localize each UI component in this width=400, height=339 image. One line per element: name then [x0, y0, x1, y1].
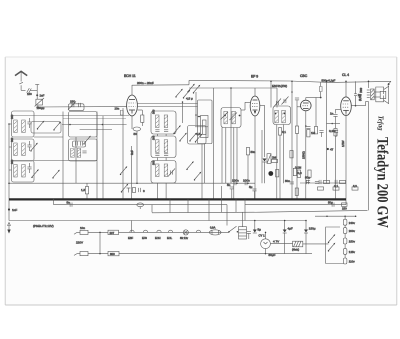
tube V2 — [250, 96, 260, 116]
capacitor C17 — [252, 189, 256, 191]
wire line y118.6 — [63, 118, 126, 120]
switch S2b — [179, 133, 187, 142]
svg-text:Tefag: Tefag — [377, 116, 386, 131]
wire V2 top cap — [254, 88, 256, 96]
wire B+ step — [188, 80, 190, 84]
coil L12 — [156, 164, 160, 177]
resistor R7 — [276, 170, 279, 177]
wire T2 bottom leads — [276, 125, 278, 200]
svg-text:50n: 50n — [285, 179, 290, 183]
resistor R15 — [352, 187, 358, 190]
coil L7a — [71, 148, 75, 157]
resistor R2 under V1 — [131, 116, 133, 129]
wire mid verticals — [221, 128, 223, 184]
capacitor C34 — [82, 151, 86, 153]
resistor R18 207 — [108, 230, 119, 234]
ground symbol — [7, 223, 10, 234]
svg-text:4 7V: 4 7V — [273, 240, 279, 244]
grid capacitor C28 — [333, 115, 337, 117]
coil L10 — [156, 140, 160, 153]
coil L16 — [275, 110, 279, 123]
svg-text:300: 300 — [152, 135, 156, 140]
svg-text:CBC: CBC — [300, 74, 308, 78]
IF bandfilter box F3 — [151, 161, 176, 184]
heater V3 — [157, 230, 161, 232]
switch S1c — [31, 169, 39, 178]
svg-text:1500Ω: 1500Ω — [302, 151, 306, 159]
svg-text:7000: 7000 — [361, 87, 363, 93]
diode D1 — [263, 159, 267, 163]
box B4 — [69, 139, 98, 161]
coupling blob C15 — [268, 171, 273, 176]
svg-text:10n: 10n — [115, 107, 120, 111]
speaker LS — [376, 85, 389, 103]
wire V2 right lead — [260, 104, 265, 106]
wire x182.5 — [182, 102, 184, 123]
wire left rail to ground cap — [8, 199, 10, 220]
svg-text:EF9: EF9 — [142, 236, 147, 240]
resistor R19 — [80, 252, 88, 256]
vertical wires middle-left — [62, 112, 64, 200]
wire V2 left lead — [245, 101, 250, 103]
svg-text:5n: 5n — [67, 201, 71, 205]
switch S1g — [30, 143, 38, 152]
capacitor C25 — [334, 131, 338, 133]
wire osc box drop — [204, 144, 206, 184]
svg-text:100n: 100n — [232, 178, 239, 182]
svg-text:5n: 5n — [227, 183, 231, 187]
switch S1d — [52, 170, 60, 179]
selector bracket — [326, 227, 344, 264]
capacitor C20 — [315, 182, 319, 184]
svg-text:0,1: 0,1 — [334, 184, 339, 188]
IF transformer T1 — [221, 108, 241, 128]
trimmer C12 — [274, 99, 281, 107]
svg-text:300: 300 — [152, 160, 156, 165]
svg-text:1/2W: 1/2W — [341, 140, 345, 147]
band filter box A1 — [12, 111, 35, 137]
svg-text:50n: 50n — [251, 150, 256, 154]
wire to selector — [328, 243, 329, 245]
svg-text:4,5 μ: 4,5 μ — [186, 97, 193, 101]
capacitor C23 + resistor 1M — [306, 127, 310, 129]
wire V4 grid lead — [336, 108, 341, 110]
wire y137 — [34, 136, 63, 138]
chassis bus heavy line — [9, 198, 346, 200]
coil L3 — [14, 143, 18, 156]
svg-text:100n: 100n — [243, 178, 250, 182]
wire trimmer to grid line — [37, 105, 39, 107]
heater chain line 2 — [74, 254, 77, 256]
resistor R5 2M — [272, 159, 278, 162]
trimmer C10 — [221, 112, 229, 120]
svg-text:(Netz): (Netz) — [292, 248, 299, 252]
svg-text:0,1M: 0,1M — [295, 166, 302, 170]
svg-text:6,3: 6,3 — [353, 184, 357, 188]
svg-text:0,1: 0,1 — [282, 130, 286, 134]
switch S1h — [121, 184, 129, 193]
capacitor C32 — [247, 232, 251, 234]
switch S3c — [187, 84, 195, 93]
wire speaker leads — [374, 91, 380, 93]
wire x196 — [195, 92, 197, 126]
wire y181 AVC line — [9, 182, 255, 184]
svg-text:Sk 12v: Sk 12v — [180, 236, 189, 240]
IF bandfilter box F1 — [151, 111, 176, 134]
diode D5 — [304, 230, 308, 234]
switch S2a — [173, 125, 181, 134]
coil L9 — [164, 115, 168, 128]
svg-text:(PbEb./T2.12V): (PbEb./T2.12V) — [33, 224, 54, 228]
mains switch — [228, 226, 238, 232]
svg-text:150: 150 — [70, 100, 75, 104]
wires between filter boxes — [156, 134, 158, 136]
fuse Si below bus — [137, 203, 144, 209]
svg-text:(0,2W): (0,2W) — [360, 94, 362, 101]
wire B+ top line right segment — [189, 80, 391, 82]
svg-text:1M: 1M — [311, 131, 316, 135]
coil L1 — [14, 120, 18, 133]
svg-text:500n-0,1μF: 500n-0,1μF — [322, 78, 336, 82]
wire y129.5 — [80, 129, 112, 131]
svg-text:ECL: ECL — [167, 236, 173, 240]
heater V5 — [196, 230, 200, 232]
svg-text:125v: 125v — [349, 250, 356, 254]
svg-text:1n: 1n — [330, 112, 334, 116]
band filter box A3 — [12, 161, 35, 183]
node left rail row1 — [8, 123, 10, 125]
svg-text:ECH 11: ECH 11 — [124, 74, 136, 78]
wire lineA right segment — [245, 204, 346, 206]
trimmer capacitor 150pF — [35, 98, 44, 106]
svg-text:EBF: EBF — [128, 236, 133, 240]
capacitors C21 C22 100n 100n on AVC line — [234, 181, 236, 185]
wire y216.2 — [315, 215, 356, 217]
svg-text:5μ: 5μ — [249, 185, 253, 189]
wire CY1 to line2 — [265, 249, 267, 254]
electrolytic C26 — [307, 180, 309, 184]
capacitor C19 — [306, 181, 310, 183]
wire rail stubs — [9, 123, 12, 125]
dial lamp — [183, 230, 188, 235]
resistor R12 — [295, 188, 298, 195]
wire V2 bottom leads — [254, 116, 256, 199]
svg-text:5μ: 5μ — [258, 228, 262, 232]
IF transformer T2 — [273, 106, 291, 125]
capacitor C8 — [164, 154, 168, 156]
resistor R17 100n — [80, 230, 88, 234]
coil L13 — [164, 164, 168, 177]
wire faint long line y115.7 — [12, 115, 130, 117]
svg-text:Tefadyn 200 GW: Tefadyn 200 GW — [374, 137, 391, 228]
mains dropper resistor — [293, 241, 303, 247]
ballast resistor block — [239, 227, 247, 239]
heater V4 — [168, 230, 172, 232]
middle box B2 — [69, 112, 98, 138]
switch S2c — [189, 133, 197, 142]
svg-text:1,5: 1,5 — [81, 188, 86, 192]
svg-text:EBF11(ZW): EBF11(ZW) — [272, 84, 287, 88]
capacitor C31 5n on line A — [70, 203, 72, 207]
heater V1 — [143, 230, 147, 232]
band filter box A2 — [12, 139, 35, 161]
svg-text:110v: 110v — [349, 260, 355, 264]
svg-text:1nF: 1nF — [40, 94, 45, 98]
capacitor C7 — [155, 154, 159, 156]
trimmer pair box B1 — [68, 102, 84, 111]
switch S3d — [193, 85, 201, 94]
capacitor C4 — [27, 167, 31, 169]
svg-text:0,3M: 0,3M — [329, 129, 336, 133]
resistor R1 — [85, 187, 88, 194]
diode D2 pair — [335, 180, 337, 184]
wire V1 anode riser — [131, 85, 133, 95]
resistor R22 — [246, 148, 249, 155]
svg-text:0,3: 0,3 — [298, 171, 303, 175]
svg-text:150v: 150v — [349, 240, 356, 244]
electrolytic C33 50u on lineA — [332, 203, 334, 207]
trimmer C13 — [282, 97, 289, 105]
resistor R16 — [334, 129, 337, 136]
svg-text:50: 50 — [134, 132, 138, 136]
page border frame — [5, 57, 397, 305]
tap resistor 125v — [343, 248, 347, 254]
wire y160.5 — [34, 160, 97, 162]
diode D3 — [253, 230, 257, 234]
tap resistor 110v — [343, 258, 347, 264]
capacitor C3 — [27, 145, 31, 147]
capacitor C30 1nF to frame — [8, 208, 10, 210]
capacitor C29 2n — [355, 81, 357, 94]
svg-text:207: 207 — [110, 231, 115, 235]
switch S2d — [186, 161, 194, 170]
box S2 frame — [188, 126, 207, 145]
svg-text:150: 150 — [27, 92, 32, 96]
resistor R21 — [278, 128, 281, 135]
wire y124.5 — [62, 124, 127, 126]
coil L5 — [14, 165, 18, 178]
coil L6 — [22, 165, 26, 178]
svg-text:150μ: 150μ — [309, 227, 316, 231]
switch S2e — [194, 172, 202, 181]
svg-text:360: 360 — [10, 137, 14, 142]
heater V2 — [130, 230, 134, 232]
svg-text:200n – 20nF: 200n – 20nF — [137, 81, 154, 85]
switch S1e — [83, 136, 91, 145]
coil L7b — [77, 148, 81, 157]
IF bandfilter box F2 — [151, 136, 176, 158]
svg-text:50μ: 50μ — [328, 200, 333, 204]
wire B+ top line left segment — [132, 84, 189, 86]
tube V3 — [301, 100, 312, 111]
svg-text:300: 300 — [10, 114, 14, 119]
svg-text:CY 1: CY 1 — [259, 233, 266, 237]
svg-text:2M: 2M — [272, 156, 277, 160]
switch S1f — [120, 166, 128, 175]
wire T3 long drop — [368, 102, 370, 211]
capacitor C24 — [319, 131, 323, 133]
resistor R13 — [318, 187, 324, 190]
wire V1 cathode drop — [122, 108, 124, 199]
coil L8 — [156, 115, 160, 128]
wire V4 anode riser — [345, 81, 347, 97]
tap resistor 200v — [343, 228, 347, 234]
switch S1b — [53, 122, 61, 131]
wire riser line1-line2 — [99, 232, 101, 253]
wire T3 to B+ — [368, 81, 370, 88]
resistor R11 — [297, 170, 300, 177]
diode D4 — [283, 230, 287, 234]
wire B+ drop to T2 — [270, 81, 272, 107]
wire grid cap line y88.5 — [189, 87, 277, 89]
wire T1 bottom — [225, 128, 227, 184]
svg-text:240v: 240v — [349, 221, 356, 225]
bus drop wires — [169, 199, 171, 212]
wire V3 top — [305, 98, 307, 101]
fuse holder — [209, 230, 221, 235]
capacitor C18 — [290, 182, 294, 184]
svg-text:300: 300 — [152, 109, 156, 114]
svg-text:0,9A: 0,9A — [210, 226, 216, 230]
coil L15 — [232, 111, 236, 124]
tube V4 output — [341, 97, 352, 116]
svg-text:4,5: 4,5 — [196, 132, 201, 136]
output transformer T3 — [367, 89, 374, 100]
wire CY1 output — [270, 243, 292, 245]
voltage ladder connect — [344, 216, 346, 219]
trimmer pair box B3 — [73, 141, 86, 147]
coil L11 — [164, 140, 168, 153]
antenna — [15, 71, 27, 90]
selector switch arm 1 — [328, 234, 336, 243]
svg-text:4μF: 4μF — [288, 227, 293, 231]
resistor R23 150 — [342, 203, 348, 206]
wire grid line y106.8 — [36, 106, 127, 108]
wire line B y212.4 — [151, 205, 153, 213]
tap resistor 240v — [343, 219, 347, 225]
resistor R14 — [333, 187, 339, 190]
node antenna — [36, 94, 38, 96]
switch bracket box — [31, 122, 61, 134]
coil L2 — [22, 120, 26, 133]
tap resistor 150v — [343, 238, 347, 244]
wire C1 to node — [31, 90, 38, 92]
svg-text:ECH: ECH — [155, 236, 161, 240]
coil L14 — [224, 111, 228, 124]
svg-text:300: 300 — [10, 159, 14, 164]
node 47 — [327, 148, 329, 150]
switch S3a — [175, 89, 183, 98]
wire V4 anode right lead — [351, 105, 365, 107]
heater chain line 1 — [74, 232, 77, 234]
wire line C y220.5 — [9, 220, 306, 222]
tube V1 — [127, 95, 138, 116]
svg-text:47: 47 — [330, 148, 334, 152]
coil L4 — [22, 143, 26, 156]
resistor R2b — [120, 110, 123, 115]
resistor R6 — [267, 154, 271, 164]
wire V3 bottom — [305, 111, 307, 200]
padder T=3 — [127, 188, 141, 193]
svg-text:EF 9: EF 9 — [251, 75, 258, 79]
capacitor C27 + resistor — [319, 180, 321, 184]
svg-text:50μ: 50μ — [305, 176, 310, 180]
svg-text:10n: 10n — [80, 226, 85, 230]
wire V4 cathode drop — [345, 114, 347, 200]
resistor R4 — [295, 126, 298, 133]
resistor R3 — [141, 115, 144, 122]
capacitor C6 — [164, 130, 168, 132]
capacitor C16 — [230, 187, 234, 189]
switch S1a — [37, 121, 45, 130]
capacitor C2 — [27, 122, 31, 124]
trimmer C9 — [168, 169, 175, 177]
switch S3b — [183, 90, 191, 99]
wire B+ end arrow — [388, 81, 392, 85]
trimmer C11 — [230, 113, 238, 121]
svg-text:150: 150 — [342, 206, 347, 210]
wire line A y204.6 — [53, 199, 55, 204]
oscillator shield box nested — [198, 100, 213, 144]
svg-text:1nF: 1nF — [12, 208, 17, 212]
left rail — [8, 124, 10, 199]
svg-text:200v: 200v — [349, 229, 356, 233]
node bus left — [53, 199, 55, 201]
capacitor C1 150 — [27, 88, 32, 93]
resistor R10 — [314, 127, 317, 134]
svg-text:600: 600 — [110, 252, 115, 256]
wire V1 osc lines — [137, 103, 197, 105]
resistor R20 600 — [108, 251, 119, 255]
svg-text:5nF: 5nF — [130, 150, 134, 155]
capacitor C14 — [295, 98, 299, 100]
selector switch arm 2 — [328, 243, 336, 252]
coil L17 — [282, 110, 286, 123]
wire V3 left lead — [297, 106, 301, 108]
resistor R9 — [293, 168, 296, 175]
svg-text:220V: 220V — [76, 241, 83, 245]
wire y183 row — [300, 182, 346, 184]
wire antenna to C1 — [21, 89, 25, 91]
svg-text:CL 4: CL 4 — [342, 73, 349, 77]
resistor R8 — [290, 151, 293, 158]
capacitor C5 — [155, 130, 159, 132]
